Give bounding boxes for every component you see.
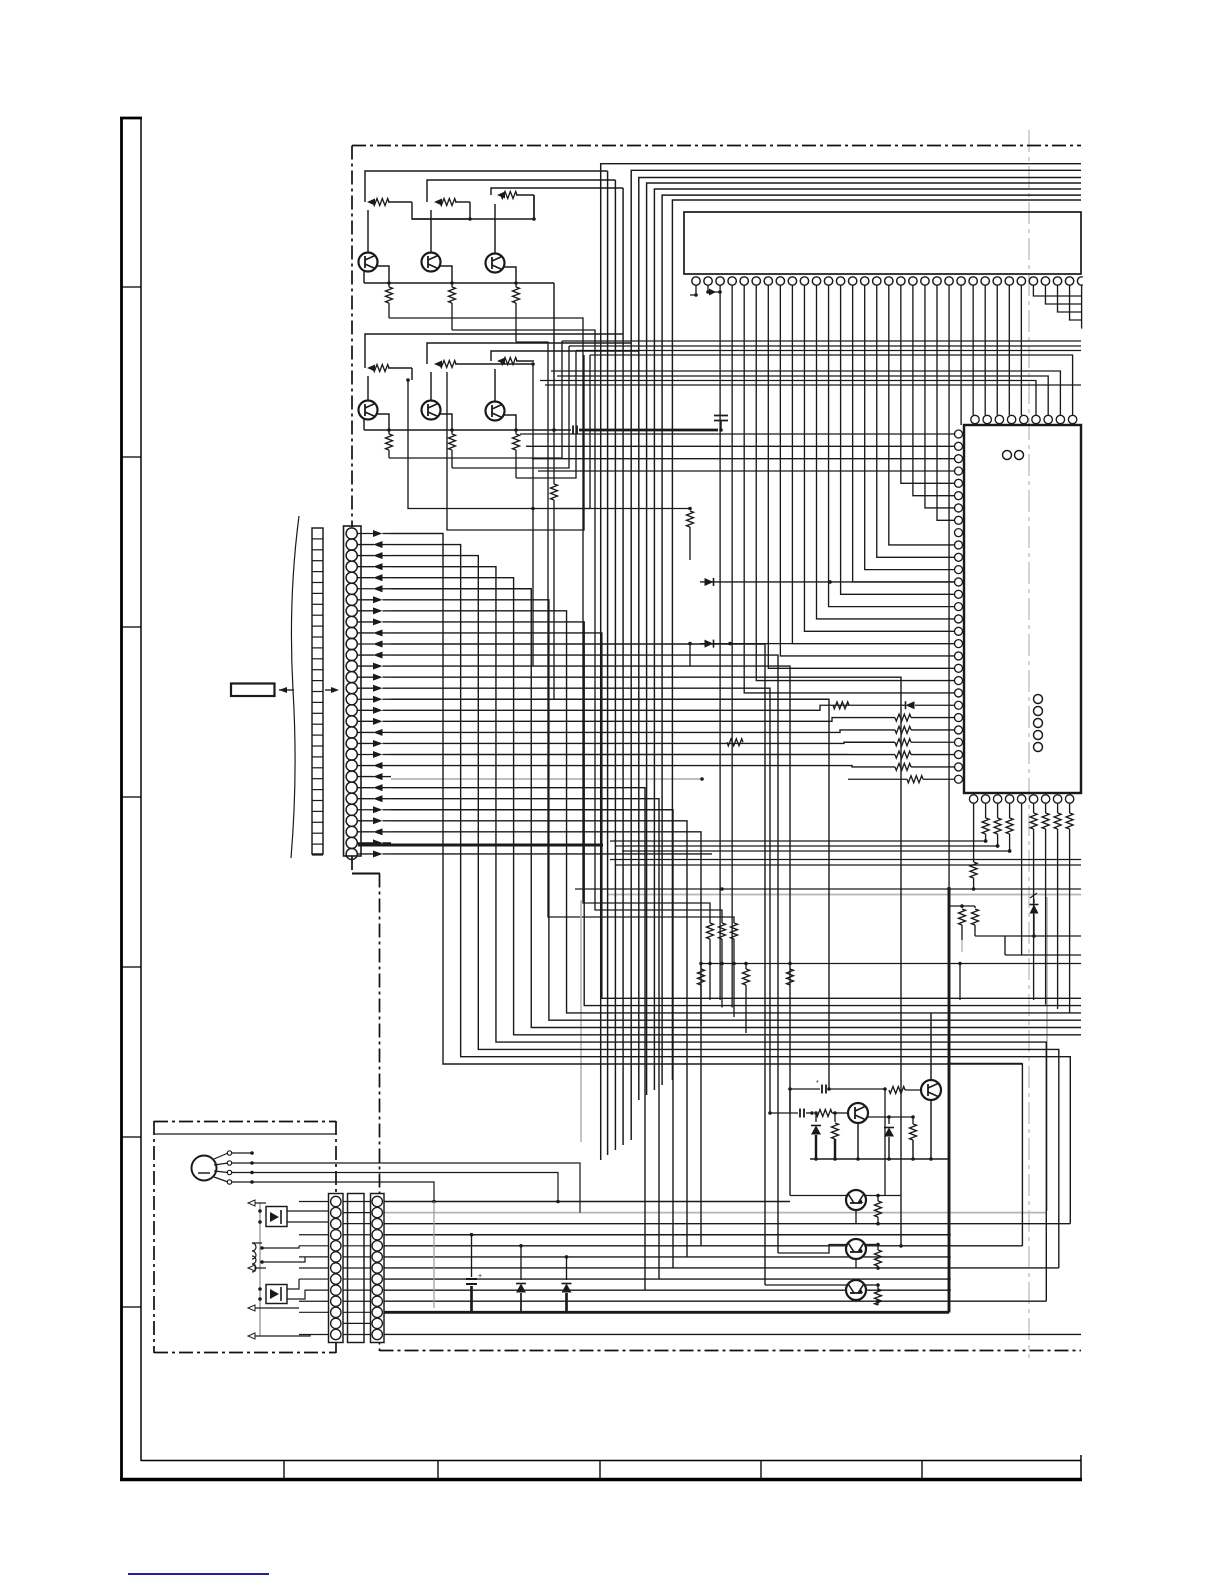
bottom rows from CN3 to right edge (384, 1201, 790, 1203)
board boundary left dash-dot below connector (351, 856, 353, 872)
wire y964 vertical (959, 964, 961, 1001)
wire G1 base link (412, 218, 470, 220)
wire top link to riser (949, 1063, 1022, 1065)
wire Q9 emitter (855, 1210, 857, 1224)
wire y906 branch (949, 905, 975, 907)
display DS1 pin row (692, 277, 700, 285)
page frame left thick border (120, 117, 123, 1480)
wire resistor bottoms link (700, 963, 1081, 965)
resistor R23 (877, 1285, 879, 1290)
connector CN2 pins (346, 528, 357, 539)
wire cluster top links (789, 1089, 791, 1113)
transistor Q6 (494, 369, 496, 402)
scan crop white margin right (1083, 0, 1224, 1584)
wire base bus G1 (412, 202, 534, 219)
wire bus into bottom resistors (610, 840, 986, 842)
motor terminal wires (214, 1153, 228, 1159)
diode D5 (815, 1113, 817, 1122)
IC U1 left pin staircase wires (520, 433, 954, 435)
wires CN2 rows 23-27 down to bottom rows (391, 788, 645, 1290)
resistor R8 (440, 361, 456, 368)
arrow into label box (279, 689, 294, 691)
wire Q10 emitter (855, 1259, 857, 1268)
opto arrows lower (248, 1305, 255, 1311)
connector CN3 pins (331, 1196, 341, 1206)
wire Q3 top feed (491, 188, 623, 195)
resistors under IC bottom pins (973, 803, 975, 862)
board boundary top dash-dot (352, 145, 1081, 147)
transistor Q7 (921, 1080, 941, 1100)
wire display pin k21 long drop (948, 285, 950, 889)
gray wire bottom row (384, 1212, 1046, 1214)
wire Q11 emitter (855, 1300, 857, 1301)
wires CN2 rows 16-17 to IC pins 22-23 (391, 705, 905, 710)
resistor R11 (451, 430, 453, 434)
resistor R15 (961, 906, 963, 908)
diode D7 on pin12 line (700, 581, 954, 583)
resistor R1 (373, 199, 389, 206)
opto PI1 leads (255, 1202, 266, 1204)
capacitor C1 (554, 429, 571, 431)
flex cable striped bar (312, 528, 323, 854)
wire DS1 pin2 stub (708, 285, 720, 292)
wire Q4 top feed (365, 334, 623, 368)
wire junction bus y889 (575, 888, 1081, 890)
resistor R24 (688, 507, 692, 511)
transistor Q9 (846, 1190, 866, 1210)
IC U1 inner index circles (1003, 451, 1012, 460)
wire Q2 collector drop (440, 266, 452, 283)
resistor R9 (501, 358, 517, 365)
resistor R31 hanging (745, 964, 747, 970)
resistor R22 (877, 1245, 879, 1251)
wire Q5 top feed (427, 343, 631, 364)
wire R10 route (389, 341, 562, 458)
wires across cable (343, 1201, 371, 1203)
wires motor box to connector CN3 (287, 1210, 329, 1212)
zener diode D2 (1033, 899, 1035, 903)
flex cable curve (291, 516, 299, 858)
bus wires vertical center with top corners to right edge (601, 164, 1081, 1160)
transistor Q4 (367, 376, 369, 401)
transistor Q1 (367, 210, 369, 253)
motor M1 (192, 1156, 217, 1181)
wire G1 emitter bus (364, 282, 554, 284)
resistor R7 (373, 365, 389, 372)
fold mark gray dash-dot vertical (1028, 130, 1030, 1358)
wires CN3 left stubs (299, 1201, 330, 1203)
thick power vertical (948, 887, 951, 1313)
capacitor C3 polarized (470, 1233, 474, 1237)
resistor R30 hanging (700, 964, 702, 970)
resistor R17 (889, 1087, 905, 1094)
capacitor C4 (822, 1085, 826, 1094)
wire Q10 base jog (778, 1245, 847, 1254)
board boundary bottom dash-dot (380, 1350, 1082, 1352)
resistor R21 (877, 1196, 879, 1202)
wire R6 route right (516, 342, 734, 923)
gray vertical aux (580, 900, 582, 1142)
resistor R27 (731, 923, 738, 939)
diode D8 on pin17 line (700, 643, 954, 645)
board boundary step dash-dot (352, 872, 380, 874)
transistor Q5 (430, 372, 432, 401)
motor unit boundary dash-dot box (153, 1121, 155, 1353)
wire y936 to edge (1005, 935, 1081, 937)
transistor Q2 (430, 210, 432, 253)
wires CN2 rows 0-9 staircase down to lower bus then right (391, 534, 1022, 1246)
page frame left inner line (140, 117, 142, 1461)
board boundary left dash-dot upper (351, 146, 353, 528)
diode D1 (906, 701, 915, 709)
bus horizontal upper band full crossings (562, 340, 1081, 342)
wire G2 lower link 2 (447, 355, 584, 530)
wire R11 route (452, 346, 569, 468)
wire Q2 top feed (427, 180, 615, 202)
wire Q9 base (790, 1195, 847, 1197)
wires CN2 rows 18-21 to IC resistor feeds (391, 730, 895, 732)
wire motor row3 link (252, 1173, 558, 1202)
wire Q6 top feed (491, 351, 639, 361)
wire R12 route (516, 351, 576, 479)
IC U1 bottom pins (969, 795, 977, 803)
connector CN4 body (371, 1194, 385, 1343)
wire CN2 row 29 (391, 853, 712, 855)
resistor R14 on wire (727, 739, 743, 746)
svg-text:*: * (816, 1080, 819, 1087)
resistor R6 (515, 283, 517, 287)
capacitor C2 (714, 416, 728, 421)
wire vertical aux gray (433, 1202, 435, 1309)
inductor L1 (252, 1243, 256, 1259)
bus horizontal band to IC top pins (590, 355, 1073, 415)
diode D6 (888, 1117, 890, 1124)
display pins straight drops to IC top pins (972, 285, 974, 415)
wire motor row2 link (252, 1163, 580, 1213)
page frame bottom ticks (283, 1461, 285, 1479)
resistor R26 (719, 923, 726, 939)
opto interrupter PI1 (266, 1207, 287, 1227)
display pins k2 k3 long drops (719, 285, 721, 1000)
IC U1 left pins (955, 430, 963, 438)
wire motor row4 to bottom rows (252, 1182, 434, 1202)
resistor R18 (816, 1110, 832, 1117)
wire Q3 collector drop (504, 267, 516, 283)
gray wire opto link vertical (259, 1203, 261, 1336)
connector CN3 body (329, 1194, 344, 1343)
connector CN4 pins (372, 1196, 382, 1206)
wire Q10 collector to resistor (864, 1244, 878, 1246)
wire G2 base bus (411, 368, 413, 380)
wire R13 to bus (554, 355, 590, 509)
wires CN2 rows 10-15 to bottom right area (391, 644, 765, 1285)
wire Q11 collector to resistor (864, 1284, 878, 1286)
page frame bottom inner line (141, 1460, 1081, 1462)
resistor R12 (515, 430, 517, 434)
diode D4 (565, 1255, 569, 1259)
diode D3 (519, 1244, 523, 1248)
blue underline mark (128, 1573, 269, 1575)
transistor Q8 (848, 1103, 868, 1123)
gray wire from connector row (391, 778, 702, 780)
display pin k22 drop (960, 285, 962, 425)
inductor L2 (252, 1256, 256, 1272)
gray wire resistor drop (961, 940, 963, 952)
arrow into flex cable (325, 689, 336, 691)
wire Q9 collector to resistor (864, 1195, 901, 1197)
wire right vertical from base bus (533, 195, 535, 219)
resistor network at IC lower left pins (895, 714, 911, 721)
svg-text:+: + (478, 1273, 482, 1280)
resistor R3 (501, 192, 517, 199)
wire Q4 collector drop (377, 414, 389, 430)
wire emitter bus drop extension (553, 509, 555, 700)
wire G2 emitter bus (364, 429, 554, 431)
opto PI2 leads (255, 1267, 266, 1269)
resistor R10 (388, 430, 390, 434)
label box (231, 684, 275, 697)
resistor R4 (388, 283, 390, 287)
resistor R13 (553, 430, 555, 484)
display right pins staircase to right edge (1033, 285, 1081, 296)
transistor Q3 (494, 204, 496, 254)
wire G2 lower link (408, 380, 690, 509)
ground bus cluster (810, 1158, 948, 1160)
wire Q11 base (765, 1284, 847, 1286)
IC U1 body (964, 425, 1081, 793)
wire Q8 collector bar (867, 1116, 913, 1118)
wire CN2 row 28 thick (358, 844, 603, 847)
connector CN2 row arrows and wires (357, 533, 374, 535)
transistor Q11 (846, 1280, 866, 1300)
wire R4 route right (389, 318, 710, 923)
wire R5 route right (452, 330, 722, 923)
capacitor C5 (800, 1109, 804, 1118)
transistor Q10 (846, 1239, 866, 1259)
resistor R28 (787, 969, 794, 985)
page frame top cap (120, 117, 142, 120)
wire C4 to resistor (828, 1088, 885, 1090)
wire Q5 collector drop (440, 414, 452, 430)
resistor R16 (974, 906, 976, 908)
display module DS1 body (684, 212, 1081, 274)
resistor R19 (834, 1113, 836, 1122)
wires opto to CN3 (287, 1279, 299, 1289)
wire bus lower crossing (610, 859, 1081, 861)
motor unit inner top wire (155, 1133, 336, 1135)
resistor R5 (451, 283, 453, 287)
wire Q1 collector drop (377, 266, 389, 283)
resistor R25 (707, 923, 714, 939)
wire DS1 pin1 stub (690, 285, 696, 295)
connector CN2 body (344, 526, 362, 856)
wire Q1 top feed (365, 171, 608, 202)
page frame fold ticks (121, 286, 141, 288)
IC U1 top pins (971, 415, 979, 423)
wire Q6 collector drop (504, 415, 516, 430)
page frame bottom thick border (120, 1478, 1082, 1481)
resistor R2 (440, 199, 456, 206)
wire thick to capacitor C2 (579, 429, 718, 432)
opto interrupter PI2 (266, 1285, 287, 1304)
wire y955 to edge (1005, 954, 1081, 956)
IC U1 inner pad circles (1034, 695, 1043, 704)
gray wire horizontal mid (607, 894, 1081, 896)
wire link C4 junction down to Q9 collector (884, 1089, 886, 1196)
board boundary left dash-dot lower (379, 874, 381, 1352)
resistor R29 on pin22 line (833, 702, 849, 709)
resistor R20 (912, 1117, 914, 1124)
flat cable body (348, 1194, 365, 1343)
gray wire vertical right (1046, 897, 1048, 1211)
